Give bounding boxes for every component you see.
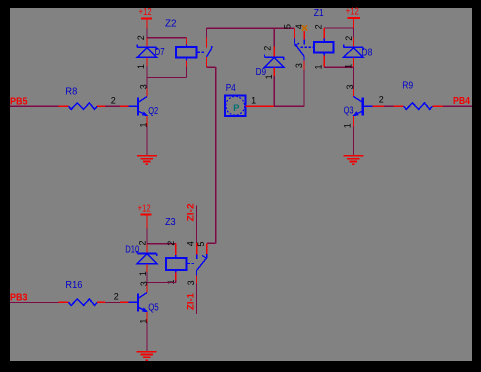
svg-text:D8: D8: [361, 47, 372, 58]
svg-text:2: 2: [111, 95, 116, 105]
svg-text:Z3: Z3: [165, 217, 176, 228]
svg-text:ZI-2: ZI-2: [186, 203, 197, 221]
svg-text:+12: +12: [139, 7, 152, 18]
svg-text:P: P: [233, 103, 240, 114]
svg-text:ZI-1: ZI-1: [186, 292, 197, 310]
svg-text:1: 1: [344, 64, 354, 69]
svg-text:4: 4: [185, 241, 195, 246]
svg-text:Z2: Z2: [165, 18, 177, 29]
svg-text:Q5: Q5: [148, 302, 159, 313]
svg-text:2: 2: [114, 292, 119, 302]
svg-text:2: 2: [344, 36, 354, 41]
svg-text:PB4: PB4: [453, 95, 470, 107]
svg-text:D10: D10: [125, 244, 139, 255]
svg-text:1: 1: [343, 123, 353, 128]
svg-text:Q3: Q3: [344, 106, 354, 117]
svg-text:1: 1: [136, 64, 146, 69]
svg-text:R16: R16: [65, 280, 82, 291]
svg-text:1: 1: [264, 74, 274, 79]
svg-text:5: 5: [196, 242, 206, 247]
svg-text:2: 2: [313, 24, 323, 29]
svg-text:3: 3: [139, 84, 149, 89]
svg-text:D7: D7: [155, 47, 165, 58]
svg-text:2: 2: [136, 35, 146, 40]
svg-text:1: 1: [251, 96, 256, 106]
svg-text:P4: P4: [226, 83, 236, 94]
svg-text:+12: +12: [346, 7, 359, 18]
svg-text:Q2: Q2: [148, 106, 158, 117]
svg-text:3: 3: [294, 63, 304, 68]
svg-text:2: 2: [166, 241, 176, 246]
svg-text:2: 2: [263, 46, 273, 51]
svg-text:5: 5: [282, 24, 292, 29]
svg-text:2: 2: [379, 94, 384, 104]
svg-text:R9: R9: [402, 81, 413, 92]
svg-text:R8: R8: [65, 87, 77, 98]
svg-text:1: 1: [313, 64, 323, 69]
svg-text:3: 3: [186, 280, 196, 285]
svg-text:3: 3: [345, 84, 355, 89]
svg-text:+12: +12: [138, 203, 151, 214]
svg-text:Z1: Z1: [314, 8, 324, 19]
